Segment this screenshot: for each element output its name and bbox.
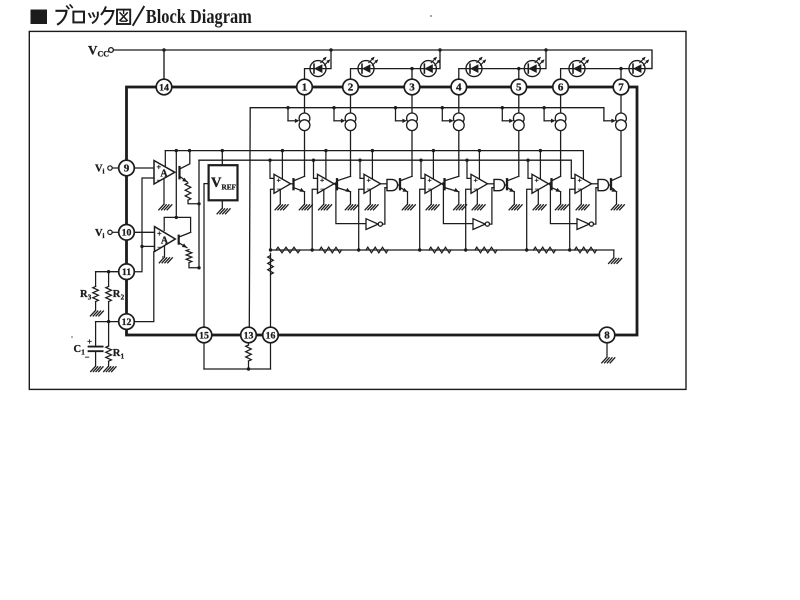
wire ladder riser 2 <box>312 189 317 250</box>
svg-text:1: 1 <box>302 82 308 94</box>
pin 4 <box>451 79 467 95</box>
title: Block Diagram heading <box>31 5 253 28</box>
C1 label <box>74 344 86 357</box>
svg-text:+: + <box>87 336 92 346</box>
node signal bus tap 2 <box>312 159 315 162</box>
node ladder tap 2 <box>311 248 314 251</box>
wire VREF top <box>221 151 223 166</box>
svg-text:+: + <box>577 176 581 185</box>
wire ladder riser 3 <box>359 189 364 250</box>
wire Vcc rail <box>113 50 652 69</box>
resistor ladder segment 2 <box>320 247 342 253</box>
LED D3 <box>420 56 441 77</box>
wire VREF riser 5 <box>478 151 480 180</box>
wire signal riser 1 <box>270 160 274 178</box>
capacitor C1 <box>85 322 103 367</box>
node T2 collector bus tap <box>175 149 178 152</box>
wire VREF output to pin15 <box>204 184 209 328</box>
resistor ladder segment 3 <box>366 247 388 253</box>
wire signal riser 2 <box>314 160 318 178</box>
svg-text:REF: REF <box>222 184 237 192</box>
node R2 top <box>107 270 110 273</box>
wire signal bus <box>199 159 571 161</box>
wire T2 collector to VREF bus <box>176 151 190 233</box>
wire pin3 output line <box>411 95 413 177</box>
svg-text:8: 8 <box>604 330 610 342</box>
wire T2 emitter link <box>189 263 199 268</box>
pin 5 <box>511 79 527 95</box>
wire ladder riser 5 <box>466 189 471 250</box>
svg-text:5: 5 <box>516 82 522 94</box>
pin 12 <box>119 314 135 330</box>
svg-text:V: V <box>211 175 222 191</box>
svg-text:12: 12 <box>122 317 132 328</box>
wire ladder riser 6 <box>527 189 532 250</box>
wire VREF riser 2 <box>325 151 327 180</box>
node signal bus tap 4 <box>419 159 422 162</box>
wire ladder end <box>613 250 615 258</box>
wire VREF riser 6 <box>539 151 541 180</box>
svg-text:R: R <box>80 289 88 300</box>
svg-text:13: 13 <box>244 330 254 341</box>
LED D6 <box>569 56 590 77</box>
node ladder tap 7 <box>568 248 571 251</box>
wire Q5 emitter <box>513 192 515 204</box>
Vcc label <box>88 43 109 59</box>
Vi terminal pin9 <box>108 166 119 170</box>
wire CMP4 output to inverter <box>443 184 473 224</box>
wire pin5 output line <box>518 95 520 177</box>
resistor R2 <box>106 272 112 322</box>
wire pin3 cathode riser <box>412 69 420 80</box>
wire pin1 output line <box>304 95 306 177</box>
wire pin6 cathode riser <box>561 69 569 80</box>
wire A2 power stub <box>164 217 176 230</box>
wire A1 ground stub <box>163 178 165 204</box>
wire VREF riser 7 <box>582 151 584 180</box>
node bias loop <box>247 367 250 370</box>
resistor ladder segment 5 <box>475 247 497 253</box>
resistor ladder segment 6 <box>534 247 556 253</box>
op-amp A2 <box>155 227 176 252</box>
wire CMP6 ground stub <box>537 190 539 204</box>
pin 1 <box>297 79 313 95</box>
wire CMP3 ground stub <box>369 190 371 204</box>
svg-text:11: 11 <box>122 267 131 278</box>
R2 label <box>113 289 125 302</box>
wire Q1 emitter <box>304 192 306 204</box>
svg-text:R: R <box>113 289 121 300</box>
wire pin12 to A2 <box>134 252 154 322</box>
svg-text:+: + <box>473 176 477 185</box>
svg-text:A: A <box>161 236 169 247</box>
svg-text:14: 14 <box>159 82 169 93</box>
pin 2 <box>343 79 359 95</box>
svg-text:−: − <box>157 243 161 251</box>
ground R1 <box>104 367 116 372</box>
wire CMP3 to gate <box>381 183 388 185</box>
svg-text:1: 1 <box>121 353 125 361</box>
wire pin10 input <box>134 231 154 233</box>
wire bias branch 7 <box>604 119 616 123</box>
wire VREF riser 4 <box>432 151 434 180</box>
wire signal bus drop <box>198 160 200 268</box>
ground Q7 <box>611 205 624 210</box>
AND gate G7 <box>598 179 609 190</box>
LED D4 <box>466 56 487 77</box>
wire Q2 emitter <box>350 192 352 204</box>
ground R3 <box>90 311 103 316</box>
pin 6 <box>553 79 569 95</box>
wire Q7 emitter <box>616 192 618 204</box>
inverter INV5 <box>473 219 490 230</box>
wire LED4 anode <box>482 68 519 70</box>
transistor Q2 <box>337 176 351 193</box>
R1 label <box>113 348 125 361</box>
ground CMP2 <box>319 205 332 210</box>
ground Q3 <box>402 205 415 210</box>
wire resistor ladder base <box>271 249 614 251</box>
node T2 emitter-pin15 <box>197 266 200 269</box>
wire INV7 to gate <box>594 188 599 225</box>
node R1 top <box>107 320 110 323</box>
pin 14 <box>156 79 172 95</box>
resistor ladder segment 1 <box>276 247 300 253</box>
wire pin11 external <box>96 271 119 273</box>
comparator CMP5 <box>471 174 488 193</box>
op-amp A1 <box>154 161 175 185</box>
wire bias branch 4 <box>442 108 453 123</box>
current source I6 <box>555 113 566 131</box>
wire LED6 anode <box>585 68 621 70</box>
LED D5 <box>524 56 545 77</box>
wire pin2 output line <box>350 95 352 177</box>
svg-text:i: i <box>103 232 105 240</box>
transistor Q4 <box>445 176 460 193</box>
node LED6-pin7 <box>619 67 622 70</box>
pin 13 <box>241 327 257 343</box>
pin 16 <box>263 327 279 343</box>
ground A2 <box>159 258 172 263</box>
node VREF bus feed <box>221 149 224 152</box>
wire signal riser 5 <box>467 160 471 178</box>
wire bias feed to pin13 <box>248 108 251 328</box>
current source I2 <box>345 113 356 131</box>
svg-text:+: + <box>320 176 324 185</box>
resistor R-bias <box>246 345 252 361</box>
wire pin16 to pin8 line <box>278 334 599 336</box>
node A2 inverting tap <box>140 245 143 248</box>
svg-text:16: 16 <box>266 330 276 341</box>
svg-text:+: + <box>276 176 280 185</box>
wire pin4 output line <box>458 95 460 177</box>
wire Q6 emitter <box>560 192 562 204</box>
node Vcc-pin14 <box>162 48 165 51</box>
wire A1 inverting input <box>134 178 154 272</box>
wire gate to Q3 <box>398 184 400 186</box>
wire LED5 anode <box>540 50 546 69</box>
ground C1 <box>91 367 103 372</box>
wire Q4 emitter <box>458 192 460 204</box>
node VREF bus tap 5 <box>478 149 481 152</box>
ground CMP6 <box>533 205 546 210</box>
current source I5 <box>513 113 524 131</box>
wire current-source bias line <box>250 108 604 121</box>
wire pin7 cathode riser <box>621 69 629 80</box>
svg-text:+: + <box>534 176 538 185</box>
wire pin5 cathode riser <box>519 69 525 80</box>
node Q6 base <box>549 182 552 185</box>
node bias tap 3 <box>394 106 397 109</box>
LED D7 <box>629 56 650 77</box>
node ladder tap 6 <box>525 248 528 251</box>
wire INV3 to gate <box>383 188 388 225</box>
resistor ladder segment 7 <box>575 247 597 253</box>
wire CMP1 ground stub <box>279 190 281 204</box>
ground Q1 <box>299 205 312 210</box>
current source I7 <box>616 113 627 131</box>
wire CMP1 to Q1 <box>291 183 294 185</box>
wire CMP4 ground stub <box>430 190 432 204</box>
wire pin1 cathode riser <box>305 69 311 80</box>
wire pin9 input <box>134 167 154 169</box>
wire CMP6 to Q6 <box>549 183 552 185</box>
wire pin14 riser <box>163 50 165 79</box>
svg-text:−: − <box>157 176 161 184</box>
current source I4 <box>453 113 464 131</box>
AND gate G3 <box>387 179 398 190</box>
ground pin8 <box>602 358 615 363</box>
wire CMP2 output to inverter <box>336 184 366 224</box>
wire gate to Q7 <box>609 184 611 186</box>
pin 3 <box>404 79 420 95</box>
node VREF bus tap 6 <box>539 149 542 152</box>
pin 10 <box>119 225 135 241</box>
pin 7 <box>613 79 629 95</box>
scan speck <box>71 15 432 338</box>
wire CMP7 ground stub <box>580 190 582 204</box>
outer border frame <box>29 31 686 389</box>
ground A1 <box>159 205 172 210</box>
node signal bus tap 3 <box>358 159 361 162</box>
wire VREF riser 3 <box>371 151 373 180</box>
node ladder tap 3 <box>357 248 360 251</box>
resistor R1 <box>106 322 112 367</box>
wire bias branch 2 <box>334 108 345 123</box>
node T2 link <box>175 216 178 219</box>
resistor R3 <box>93 272 99 311</box>
node Vcc-LED5 <box>544 48 547 51</box>
node ladder tap 1 <box>269 248 272 251</box>
svg-text:3: 3 <box>409 82 415 94</box>
comparator CMP6 <box>532 174 549 193</box>
LED D1 <box>310 56 331 77</box>
wire gate to Q5 <box>505 184 507 186</box>
wire bottom loop <box>204 368 271 370</box>
comparator CMP4 <box>425 174 442 193</box>
current source I3 <box>407 113 418 131</box>
ground Q2 <box>345 205 358 210</box>
wire A2 inverting input <box>142 245 155 247</box>
comparator CMP1 <box>274 174 291 193</box>
svg-text:3: 3 <box>88 294 92 302</box>
node VREF bus tap 3 <box>371 149 374 152</box>
transistor Q1 <box>294 176 306 193</box>
ground ladder <box>609 258 622 263</box>
node signal bus tap 6 <box>526 159 529 162</box>
wire CMP2 to Q2 <box>334 183 337 185</box>
wire LED1 anode <box>326 50 331 69</box>
resistor T2 emitter <box>186 250 192 263</box>
svg-text:+: + <box>427 176 431 185</box>
ground Q4 <box>454 205 467 210</box>
node VREF bus tap 1 <box>281 149 284 152</box>
ground VREF <box>217 209 230 214</box>
wire bias branch 5 <box>502 108 513 123</box>
ground Q5 <box>509 205 522 210</box>
pin 9 <box>119 160 135 176</box>
wire signal riser 7 <box>571 160 575 178</box>
comparator CMP3 <box>364 174 381 193</box>
svg-text:6: 6 <box>558 82 564 94</box>
Vcc terminal <box>109 48 114 53</box>
wire A1 power stub <box>164 151 166 167</box>
wire pin8 ground stub <box>606 343 608 357</box>
transistor Q3 <box>400 176 412 193</box>
svg-text:2: 2 <box>348 82 354 94</box>
svg-text:Block Diagram: Block Diagram <box>146 6 252 28</box>
resistor ladder segment 4 <box>429 247 451 253</box>
node signal bus tap 5 <box>465 159 468 162</box>
wire pin4 cathode riser <box>459 69 466 80</box>
wire pin2 cathode riser <box>351 69 359 80</box>
current source I1 <box>299 113 310 131</box>
node bias tap 6 <box>542 106 545 109</box>
node bias tap 4 <box>441 106 444 109</box>
wire bias branch 1 <box>288 108 299 123</box>
wire A2 ground stub <box>164 247 166 258</box>
transistor Q6 <box>552 176 562 193</box>
wire INV5 to gate <box>490 188 495 225</box>
node Q2 base <box>334 182 337 185</box>
wire VREF bus <box>165 150 583 152</box>
wire Q3 emitter <box>407 192 409 204</box>
ground CMP3 <box>365 205 378 210</box>
svg-text:+: + <box>366 176 370 185</box>
wire CMP5 ground stub <box>476 190 478 204</box>
inverter INV3 <box>366 219 383 230</box>
node Vcc-LED1 <box>329 48 332 51</box>
node VREF bus tap 2 <box>324 149 327 152</box>
wire CMP7 to gate <box>592 183 599 185</box>
comparator CMP7 <box>575 174 592 193</box>
svg-text:4: 4 <box>456 82 462 94</box>
node bias tap 5 <box>501 106 504 109</box>
R3 label <box>80 289 92 302</box>
wire T1 emitter to signal node <box>188 200 199 204</box>
wire signal riser 4 <box>421 160 425 178</box>
svg-text:R: R <box>113 348 121 359</box>
AND gate G5 <box>494 179 505 190</box>
wire LED3 anode <box>436 50 440 69</box>
wire signal riser 6 <box>528 160 532 178</box>
wire bias branch 3 <box>396 108 407 123</box>
wire pin15 lower <box>203 343 205 369</box>
node bias tap 1 <box>286 106 289 109</box>
wire pin12 external <box>96 321 119 323</box>
svg-text:i: i <box>103 168 105 176</box>
comparator CMP2 <box>318 174 335 193</box>
svg-text:1: 1 <box>81 349 85 357</box>
wire pin16 lower <box>270 343 272 369</box>
svg-text:9: 9 <box>124 163 130 175</box>
transistor T2 <box>179 232 191 249</box>
svg-text:CC: CC <box>98 50 110 59</box>
node LED2-pin3 <box>410 67 413 70</box>
inverter INV7 <box>577 219 594 230</box>
svg-text:V: V <box>88 43 98 58</box>
resistor ladder bottom <box>268 256 274 275</box>
wire CMP4 to Q4 <box>442 183 445 185</box>
pin 11 <box>119 264 135 280</box>
wire ladder riser 4 <box>420 189 425 250</box>
wire VREF ground stub <box>221 200 223 208</box>
node T1 collector bus tap <box>188 149 191 152</box>
Vi label pin10 <box>95 228 105 240</box>
wire CMP6 output to inverter <box>550 184 577 224</box>
node ladder tap 5 <box>464 248 467 251</box>
svg-text:15: 15 <box>199 330 209 341</box>
resistor T1 emitter <box>185 183 191 200</box>
LED D2 <box>358 56 379 77</box>
wire pin7 output line <box>620 95 622 177</box>
ground Q6 <box>555 205 568 210</box>
Vi label pin9 <box>95 164 105 176</box>
node bias tap 2 <box>332 106 335 109</box>
svg-text:2: 2 <box>121 294 125 302</box>
node Q4 base <box>442 182 445 185</box>
voltage reference VREF <box>209 165 238 200</box>
wire CMP2 ground stub <box>323 190 325 204</box>
wire LED2 anode <box>374 68 412 70</box>
node signal bus tap 1 <box>268 159 271 162</box>
node Vcc-LED3 <box>438 48 441 51</box>
wire ladder riser 1 <box>271 189 275 250</box>
transistor Q5 <box>507 176 519 193</box>
pin 15 <box>196 327 212 343</box>
node signal takeoff <box>197 202 200 205</box>
Vi terminal pin10 <box>108 230 119 234</box>
svg-text:−: − <box>85 352 90 362</box>
svg-text:C: C <box>74 344 82 355</box>
node ladder tap 4 <box>418 248 421 251</box>
wire ladder riser 7 <box>570 189 575 250</box>
ground CMP7 <box>576 205 589 210</box>
ground CMP1 <box>275 205 288 210</box>
wire pin16 ladder feed <box>270 253 272 327</box>
transistor Q7 <box>611 176 621 193</box>
IC internal block outline <box>127 87 638 335</box>
wire pin6 output line <box>560 95 562 177</box>
ground CMP5 <box>472 205 485 210</box>
ground CMP4 <box>426 205 439 210</box>
wire bias branch 6 <box>544 108 555 123</box>
wire signal riser 3 <box>360 160 364 178</box>
wire CMP5 to gate <box>488 183 495 185</box>
svg-text:10: 10 <box>122 228 132 239</box>
wire R-bias lower <box>248 361 250 369</box>
transistor T1 <box>180 151 190 184</box>
